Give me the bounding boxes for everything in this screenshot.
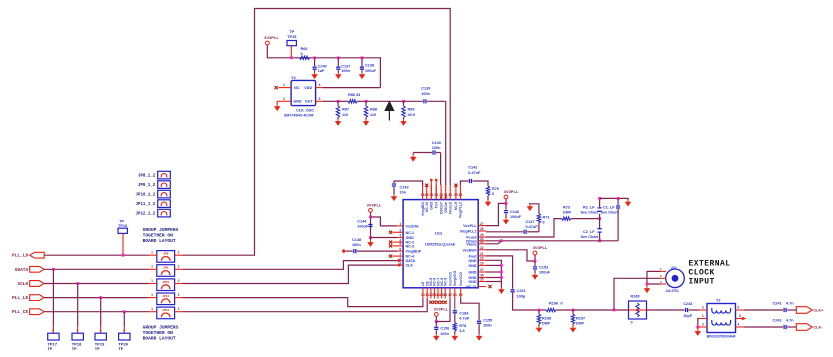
svg-text:JP11: JP11: [162, 294, 169, 298]
svg-text:1uF: 1uF: [318, 69, 325, 73]
svg-text:GND: GND: [468, 271, 477, 275]
svg-text:FineLD: FineLD: [449, 202, 453, 214]
svg-text:2: 2: [178, 279, 180, 283]
svg-text:C156: C156: [440, 327, 449, 331]
svg-text:6: 6: [738, 305, 740, 309]
svg-text:JP12_1_2: JP12_1_2: [136, 213, 156, 217]
wire PLL_LD loop: [183, 9, 451, 256]
junction TP19: [99, 296, 102, 299]
svg-text:SM7745HV-40.0M: SM7745HV-40.0M: [284, 113, 313, 117]
junction C156: [435, 320, 438, 323]
svg-text:0.47uF: 0.47uF: [468, 171, 481, 175]
svg-text:GND: GND: [430, 202, 434, 210]
svg-text:1: 1: [660, 267, 662, 271]
resistor R88 110 (shunt): [365, 101, 367, 106]
svg-text:Tref: Tref: [435, 201, 439, 208]
svg-text:VregBUF: VregBUF: [406, 250, 422, 254]
svg-text:JP10_1_2: JP10_1_2: [136, 194, 156, 198]
svg-text:100uF: 100uF: [357, 225, 369, 229]
svg-text:C155: C155: [483, 318, 492, 322]
wire 3V3PLL VccDIG: [370, 212, 372, 237]
svg-text:TP: TP: [72, 348, 77, 352]
wire PLL_CE: [44, 311, 148, 313]
svg-text:VregPLL1: VregPLL1: [460, 230, 477, 234]
ground C147 loop: [528, 205, 533, 211]
svg-text:C139: C139: [421, 87, 430, 91]
capacitor C153 100uF: [534, 261, 536, 266]
svg-text:2: 2: [178, 307, 180, 311]
test point TP17: [52, 269, 54, 326]
svg-text:2: 2: [660, 274, 662, 278]
wire FLout: [486, 219, 562, 237]
svg-text:JP9_1_2: JP9_1_2: [138, 184, 156, 188]
test point TP20: [123, 312, 125, 326]
svg-text:4: 4: [319, 83, 321, 87]
svg-text:C146: C146: [510, 210, 519, 214]
svg-text:2: 2: [702, 305, 704, 309]
svg-text:5: 5: [739, 314, 741, 318]
svg-text:3.3: 3.3: [459, 329, 464, 333]
svg-text:GND: GND: [293, 100, 302, 104]
svg-text:100n: 100n: [341, 69, 350, 73]
svg-text:3V3PLL: 3V3PLL: [533, 245, 548, 250]
svg-text:C147: C147: [526, 220, 535, 224]
svg-text:NC-11: NC-11: [466, 285, 476, 289]
capacitor C240 1uF: [313, 56, 316, 59]
svg-text:See Chart: See Chart: [581, 210, 599, 214]
svg-text:INPUT: INPUT: [689, 278, 715, 287]
svg-text:GROUP JUMPERS: GROUP JUMPERS: [143, 324, 179, 330]
svg-text:TOGETHER ON: TOGETHER ON: [143, 330, 174, 336]
svg-text:0: 0: [301, 52, 303, 56]
svg-text:PLL_LD: PLL_LD: [12, 253, 29, 259]
test point TP19: [100, 298, 102, 326]
svg-text:GND: GND: [468, 259, 477, 263]
svg-text:NC-3: NC-3: [406, 244, 415, 248]
svg-text:TP: TP: [119, 219, 124, 223]
svg-text:R86 33: R86 33: [348, 93, 360, 97]
wire PLL_LE to LE: [183, 298, 423, 307]
svg-text:U12: U12: [435, 231, 443, 236]
svg-text:See Chart: See Chart: [601, 210, 619, 214]
svg-text:VccBUF: VccBUF: [462, 248, 477, 252]
junction TP17: [52, 268, 55, 271]
svg-text:JP9: JP9: [163, 266, 169, 270]
svg-text:PLL_LE: PLL_LE: [12, 295, 29, 301]
capacitor C137 100n: [337, 56, 340, 59]
svg-text:3V3PLL: 3V3PLL: [434, 307, 449, 312]
svg-text:BOARD LAYOUT: BOARD LAYOUT: [143, 238, 176, 244]
svg-text:TP: TP: [95, 348, 100, 352]
svg-text:CLOCK: CLOCK: [689, 269, 715, 278]
svg-text:100uF: 100uF: [539, 271, 551, 275]
capacitor C155 100n: [461, 299, 479, 321]
resistor R70 0: [486, 186, 489, 196]
svg-text:C1_LF: C1_LF: [603, 205, 615, 209]
svg-text:VccVCO: VccVCO: [448, 272, 452, 286]
svg-text:EXTERNAL: EXTERNAL: [689, 259, 731, 268]
junction R89: [402, 100, 405, 103]
wire VregPLL1: [486, 231, 523, 233]
junction TP16/PLL_LD: [122, 254, 125, 257]
svg-text:JP8_1_2: JP8_1_2: [138, 175, 156, 179]
svg-text:NC-10: NC-10: [425, 202, 429, 212]
svg-text:4.7uF: 4.7uF: [459, 317, 470, 321]
wire to R180: [573, 309, 629, 311]
svg-text:100uF: 100uF: [365, 69, 377, 73]
svg-text:JP8: JP8: [163, 252, 169, 256]
junction R88: [365, 100, 368, 103]
svg-text:R180: R180: [631, 295, 640, 299]
svg-text:Vtune: Vtune: [466, 242, 476, 246]
svg-text:R73: R73: [563, 205, 570, 209]
svg-text:C143: C143: [400, 186, 409, 190]
svg-text:1: 1: [283, 83, 285, 87]
wire OSCin bypass drop: [440, 153, 442, 186]
port CLK+: [796, 307, 812, 314]
wire OSCin feed: [445, 101, 447, 185]
wire VccPLL: [486, 203, 506, 225]
svg-text:4: 4: [738, 322, 740, 326]
svg-text:110: 110: [342, 113, 348, 117]
svg-text:100uF: 100uF: [510, 215, 522, 219]
jumper JP8: [157, 251, 175, 263]
svg-text:TP: TP: [48, 348, 53, 352]
svg-text:BOARD LAYOUT: BOARD LAYOUT: [143, 336, 176, 342]
svg-text:NC-4: NC-4: [406, 255, 416, 259]
svg-text:CLK+: CLK+: [814, 309, 825, 313]
svg-text:TP15: TP15: [287, 35, 296, 39]
svg-text:C240: C240: [318, 64, 327, 68]
resistor R89 49.9 (shunt): [403, 101, 405, 106]
junction C144/GND pin: [369, 236, 372, 239]
svg-text:C241: C241: [773, 302, 782, 306]
svg-text:1: 1: [151, 293, 153, 297]
junction T2 ground: [696, 326, 699, 329]
svg-text:100n: 100n: [440, 332, 449, 336]
svg-text:100n: 100n: [352, 243, 361, 247]
svg-text:R2_LF: R2_LF: [583, 205, 595, 209]
svg-text:R197: R197: [576, 316, 585, 320]
junction TP18: [76, 282, 79, 285]
svg-text:C140: C140: [432, 141, 441, 145]
svg-text:DNP: DNP: [542, 322, 550, 326]
jumper JP11: [157, 293, 175, 305]
svg-text:R88: R88: [370, 108, 377, 112]
svg-text:SDATA: SDATA: [15, 267, 29, 273]
svg-text:2: 2: [178, 265, 180, 269]
svg-text:OSCin*: OSCin*: [439, 201, 443, 214]
ground BNC: [646, 284, 648, 287]
svg-text:3V3PLL: 3V3PLL: [264, 35, 279, 40]
svg-text:VregPLL2: VregPLL2: [459, 202, 463, 218]
no-connect marks bottom pins: [429, 301, 432, 304]
svg-text:C2_LF: C2_LF: [583, 230, 595, 234]
svg-text:SCLK: SCLK: [17, 281, 28, 287]
junction CPout: [500, 239, 503, 242]
svg-text:3V3PLL: 3V3PLL: [367, 202, 382, 207]
svg-text:100n: 100n: [483, 324, 492, 328]
port CLK-: [796, 324, 812, 331]
svg-text:GND: GND: [468, 264, 477, 268]
svg-text:NC: NC: [294, 86, 300, 90]
svg-text:3: 3: [319, 97, 321, 101]
svg-text:100n: 100n: [432, 146, 441, 150]
junction R198: [538, 309, 541, 312]
svg-text:C184: C184: [459, 311, 469, 315]
svg-text:R78: R78: [459, 324, 466, 328]
op-amp U12 LMX2531LQ1xxxE body: [403, 200, 478, 288]
svg-text:BD0310J50100AHF: BD0310J50100AHF: [707, 335, 736, 339]
svg-text:CLK-: CLK-: [814, 326, 824, 330]
svg-text:DATA: DATA: [406, 259, 416, 263]
wire SCLK to CLK: [183, 265, 399, 283]
resistor R87 110 (shunt): [337, 101, 339, 106]
jumper JP9: [157, 265, 175, 277]
wire CPout/Vtune: [486, 240, 618, 242]
svg-text:1: 1: [151, 279, 153, 283]
svg-text:GND: GND: [406, 236, 415, 240]
wire SCLK: [44, 283, 148, 285]
svg-text:3: 3: [702, 322, 704, 326]
svg-text:10n: 10n: [400, 190, 407, 194]
svg-text:R196: R196: [549, 301, 558, 305]
svg-text:R87: R87: [342, 108, 349, 112]
junction C146: [505, 202, 508, 205]
svg-text:LMX2531LQ1xxxE: LMX2531LQ1xxxE: [425, 243, 456, 247]
svg-text:R71: R71: [543, 215, 550, 219]
wire to R89: [366, 100, 404, 102]
junction C153: [534, 260, 537, 263]
svg-text:CLK: CLK: [406, 264, 414, 268]
capacitor C146 100uF: [505, 203, 507, 209]
jumper JP10: [157, 279, 175, 291]
wire SDATA to DATA: [183, 261, 399, 270]
svg-text:Fout: Fout: [469, 254, 478, 258]
svg-text:C243: C243: [683, 302, 692, 306]
svg-text:VregVCO: VregVCO: [453, 271, 457, 286]
wire PLL_LD: [44, 254, 148, 256]
pin connection dots OSCin: [440, 196, 442, 198]
wire BNC shield: [647, 271, 661, 284]
svg-text:3V3PLL: 3V3PLL: [504, 189, 519, 194]
svg-text:OUT: OUT: [305, 100, 314, 104]
junction BNC tap: [613, 309, 616, 312]
capacitor C138 100uF: [361, 56, 364, 59]
svg-text:R66: R66: [301, 47, 308, 51]
dangling pin ends top: [430, 179, 432, 181]
svg-text:TP17: TP17: [48, 344, 58, 348]
svg-text:4.7n: 4.7n: [786, 302, 794, 306]
wire GND pins rail: [486, 260, 501, 287]
svg-text:Y3: Y3: [291, 76, 296, 80]
svg-text:NC-9: NC-9: [444, 278, 448, 286]
capacitor C156 100n: [435, 322, 437, 327]
svg-text:OSCin: OSCin: [444, 202, 448, 213]
resistor R86 33 (series): [338, 100, 348, 102]
junctions GND rail: [500, 264, 503, 267]
svg-text:C144: C144: [357, 219, 367, 223]
svg-text:TP16: TP16: [118, 224, 127, 228]
svg-text:1: 1: [702, 314, 704, 318]
jumper JP12: [157, 307, 175, 319]
wire T2 out-: [744, 326, 783, 328]
wire R180 to C243: [647, 309, 685, 311]
junction TP15/rail: [290, 56, 293, 59]
svg-text:DNP: DNP: [576, 322, 584, 326]
svg-text:TP: TP: [118, 348, 123, 352]
resistor R198 DNP (shunt): [538, 310, 540, 314]
svg-text:TP18: TP18: [72, 344, 82, 348]
svg-text:DNP: DNP: [563, 210, 571, 214]
ground GND rail: [499, 288, 504, 294]
capacitor C184 4.7uF: [454, 299, 456, 310]
svg-text:2: 2: [178, 293, 180, 297]
svg-text:R89: R89: [408, 108, 415, 112]
svg-text:1: 1: [151, 307, 153, 311]
wire BNC center: [614, 278, 661, 310]
junction C1_LF: [617, 197, 620, 200]
svg-text:142-0701: 142-0701: [665, 289, 679, 293]
svg-text:R198: R198: [542, 316, 551, 320]
wire VccBUF: [486, 250, 535, 261]
svg-text:PLL_CE: PLL_CE: [12, 309, 29, 315]
svg-text:1: 1: [151, 251, 153, 255]
svg-text:0: 0: [492, 192, 494, 196]
svg-text:TOGETHER ON: TOGETHER ON: [143, 233, 174, 239]
svg-text:NC-1: NC-1: [406, 231, 415, 235]
wire oscillator output: [323, 100, 338, 102]
svg-text:1: 1: [151, 265, 153, 269]
svg-text:JP10: JP10: [162, 280, 169, 284]
svg-text:VccVCO: VccVCO: [459, 272, 463, 286]
wire 3V3PLL rail: [267, 45, 380, 88]
svg-text:C138: C138: [365, 64, 374, 68]
svg-text:100n: 100n: [421, 92, 430, 96]
svg-text:C242: C242: [773, 319, 782, 323]
junction TP20: [123, 310, 126, 313]
svg-text:NC-9: NC-9: [454, 202, 458, 210]
resistor R197 DNP (shunt): [572, 310, 574, 314]
wire VccVCO: [436, 299, 450, 322]
annotation black arrow: [385, 102, 393, 121]
wire T2 out+: [744, 309, 783, 311]
svg-text:110: 110: [370, 113, 376, 117]
svg-text:GROUP JUMPERS: GROUP JUMPERS: [143, 227, 179, 233]
svg-text:TP20: TP20: [118, 344, 128, 348]
junction R197: [572, 309, 575, 312]
svg-text:2: 2: [283, 97, 285, 101]
svg-text:0: 0: [543, 221, 545, 225]
wire SDATA: [44, 268, 148, 270]
junction BNC ground: [646, 283, 649, 286]
resistor R78 3.3: [454, 314, 456, 323]
no-connect marks top pins: [425, 184, 428, 187]
junction R87: [337, 100, 340, 103]
svg-text:2: 2: [178, 251, 180, 255]
wire PLL_LE: [44, 297, 148, 299]
wire PLL_CE to CE: [183, 299, 428, 312]
svg-text:T2: T2: [716, 298, 720, 302]
wire ground rail loop filter: [600, 198, 628, 200]
svg-text:CLK_OSC: CLK_OSC: [296, 109, 314, 113]
svg-text:0: 0: [631, 321, 633, 325]
svg-text:TP: TP: [289, 30, 294, 34]
svg-text:See Chart: See Chart: [581, 235, 599, 239]
svg-text:C153: C153: [539, 265, 548, 269]
svg-text:100p: 100p: [517, 294, 526, 298]
svg-text:JP11_1_2: JP11_1_2: [136, 203, 156, 207]
svg-text:JP12: JP12: [162, 308, 169, 312]
svg-text:0: 0: [561, 301, 563, 305]
svg-text:C148: C148: [352, 238, 361, 242]
svg-text:VccPLL: VccPLL: [463, 224, 477, 228]
svg-text:10pF: 10pF: [683, 314, 693, 318]
wire Fout: [486, 256, 513, 289]
junction loop filter node A: [598, 217, 601, 220]
svg-text:C231: C231: [517, 289, 526, 293]
svg-text:C137: C137: [341, 64, 350, 68]
svg-text:0.47uF: 0.47uF: [526, 225, 539, 229]
svg-text:VDD: VDD: [304, 86, 312, 90]
svg-text:R70: R70: [492, 187, 499, 191]
wire T2 primary ground: [698, 319, 699, 328]
resistor R71 0: [538, 223, 540, 232]
svg-text:VccDIG: VccDIG: [406, 224, 419, 228]
svg-text:4.7n: 4.7n: [786, 319, 794, 323]
svg-text:49.9: 49.9: [408, 113, 415, 117]
test point TP18: [77, 284, 79, 327]
svg-text:GND: GND: [468, 280, 477, 284]
svg-text:TP19: TP19: [95, 344, 105, 348]
svg-text:C142: C142: [468, 166, 477, 170]
